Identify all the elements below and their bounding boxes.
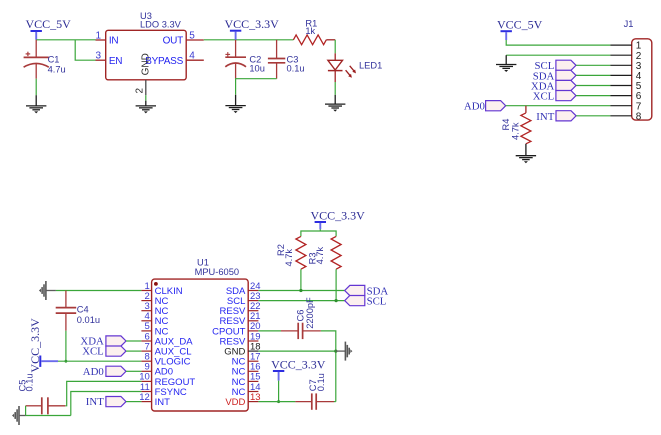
U1 pin 12 INT — [139, 392, 170, 408]
power flag VCC_3.3V rotated left — [28, 318, 58, 373]
U1 pin 5 NC — [141, 321, 168, 337]
U1 pin 17 NC — [232, 352, 261, 368]
U1 pin 18 GND — [224, 341, 260, 357]
resistor R2 4.7k — [276, 236, 306, 269]
net label XDA — [531, 80, 576, 92]
power flag VCC_5V at J1 — [497, 18, 543, 40]
svg-text:4: 4 — [189, 51, 195, 62]
svg-text:0.01u: 0.01u — [77, 315, 100, 325]
wire XCL to J1 pin 6 — [576, 95, 610, 97]
net label SDA — [533, 70, 576, 82]
U1 pin 15 NC — [232, 372, 261, 388]
net label INT — [536, 111, 576, 123]
wire SDA to J1 pin 4 — [576, 74, 610, 76]
wire R1 to LED — [334, 40, 336, 54]
resistor R1 1k — [293, 18, 335, 44]
wire EN branch — [75, 40, 95, 60]
svg-text:0.1u: 0.1u — [25, 373, 35, 391]
svg-text:4.7u: 4.7u — [48, 64, 66, 74]
svg-text:8: 8 — [636, 111, 642, 122]
J1 pin 3 — [610, 61, 641, 72]
U1 pin 13 VDD — [225, 392, 260, 408]
svg-text:10u: 10u — [249, 63, 265, 73]
svg-text:VCC_3.3V: VCC_3.3V — [311, 209, 366, 223]
wire R3 bottom to SCL net — [335, 269, 337, 300]
ground arrow bottom left — [12, 406, 19, 425]
J1 pin 8 — [610, 111, 641, 122]
capacitor C6 2200pF — [281, 297, 321, 339]
svg-text:C4: C4 — [77, 305, 89, 315]
svg-text:LED1: LED1 — [359, 60, 382, 70]
wire AD0 to pin 9 — [126, 370, 141, 372]
svg-text:4.7k: 4.7k — [284, 249, 294, 267]
svg-text:2: 2 — [135, 88, 146, 94]
wire INT to J1 pin 8 — [576, 115, 610, 117]
U1 pin 6 AUX_DA — [141, 331, 193, 347]
svg-text:4.7k: 4.7k — [510, 122, 520, 140]
ground under C1 — [35, 95, 37, 106]
U1 pin 7 AUX_CL — [141, 341, 191, 357]
svg-text:INT: INT — [536, 111, 554, 123]
svg-text:XCL: XCL — [82, 346, 104, 358]
svg-text:C6: C6 — [295, 310, 305, 322]
U1 pin 2 NC — [141, 291, 168, 307]
svg-text:4.7k: 4.7k — [315, 246, 325, 264]
wire VCC_3.3V to VLOGIC — [58, 360, 141, 362]
IC U3 LDO 3.3V — [106, 11, 187, 80]
wire SDA net — [258, 290, 344, 292]
power flag VCC_5V — [26, 17, 72, 40]
U1 pin 22 RESV — [220, 301, 261, 317]
U1 pin 20 CPOUT — [212, 321, 260, 337]
net label SCL — [534, 60, 576, 72]
resistor R4 4.7k — [501, 106, 531, 144]
net label XDA — [80, 336, 126, 348]
resistor R3 4.7k — [308, 236, 341, 269]
U1 pin 14 NC — [232, 382, 261, 398]
U3 pin 2 GND — [135, 53, 152, 95]
U1 pin 4 NC — [141, 311, 168, 327]
IC U1 MPU-6050 — [152, 257, 249, 411]
svg-text:3: 3 — [95, 51, 101, 62]
U3 pin 1 IN — [95, 30, 118, 46]
junction — [334, 350, 337, 353]
wire J1 pin 2 to ground — [506, 54, 610, 56]
U1 pin 19 RESV — [220, 331, 261, 347]
wire XDA to J1 pin 5 — [576, 85, 610, 87]
svg-text:XCL: XCL — [533, 91, 555, 103]
svg-text:OUT: OUT — [163, 36, 184, 47]
U1 pin 21 RESV — [220, 311, 261, 327]
wire LED to ground — [334, 82, 336, 95]
net label AD0 — [83, 366, 126, 378]
wire gnd to CLKIN — [56, 290, 141, 292]
J1 pin 5 — [610, 81, 641, 92]
svg-text:VDD: VDD — [225, 397, 245, 408]
U3 pin 5 OUT — [163, 30, 204, 46]
wire INT to pin 12 — [126, 401, 141, 403]
U1 pin 16 NC — [232, 362, 261, 378]
U1 pin 3 NC — [141, 301, 168, 317]
power flag VCC_3.3V at VDD — [271, 358, 326, 381]
ground under R4 — [525, 144, 527, 156]
U1 pin 1 CLKIN — [141, 281, 182, 297]
svg-text:2200pF: 2200pF — [305, 297, 315, 329]
svg-text:0.1u: 0.1u — [287, 63, 305, 73]
wire VCC_5V to J1 pin 1 — [506, 40, 610, 45]
connector J1 — [624, 19, 652, 120]
net label XCL — [82, 346, 126, 358]
ground arrow left of CLKIN — [39, 281, 46, 300]
capacitor C7 0.1u — [295, 373, 334, 410]
svg-text:SCL: SCL — [367, 296, 387, 308]
wire XCL to AUX_CL — [126, 350, 141, 352]
svg-text:INT: INT — [86, 396, 104, 408]
wire C1 to ground — [35, 79, 37, 96]
wire bottom gnd net — [26, 415, 71, 417]
net label SDA — [345, 285, 389, 297]
wire SCL to J1 pin 3 — [576, 64, 610, 66]
wire C6 to gnd vertical — [321, 331, 336, 402]
svg-text:J1: J1 — [624, 19, 634, 29]
svg-text:INT: INT — [155, 397, 171, 408]
J1 pin 1 — [610, 41, 641, 52]
svg-text:VCC_5V: VCC_5V — [497, 18, 543, 32]
svg-text:GND: GND — [140, 53, 151, 75]
svg-text:U1: U1 — [197, 257, 209, 267]
power flag VCC_3.3V above R2 R3 — [311, 209, 366, 230]
svg-text:1k: 1k — [305, 26, 315, 36]
capacitor C5 0.1u — [17, 373, 65, 414]
wire U3 gnd — [145, 95, 147, 101]
net label INT — [86, 396, 126, 408]
wire C4 to VLOGIC net — [65, 331, 67, 362]
svg-text:1: 1 — [95, 30, 101, 41]
ground at J1 pin 2 — [505, 55, 507, 64]
svg-text:VCC_3.3V: VCC_3.3V — [271, 358, 326, 372]
wire FSYNC to gnd net — [71, 392, 142, 416]
wire C7 to gnd vertical — [334, 401, 336, 403]
junction — [299, 289, 302, 292]
wire C2 C3 bottom — [236, 79, 277, 95]
J1 pin 4 — [610, 71, 641, 82]
svg-text:IN: IN — [109, 36, 119, 47]
U1 pin 11 FSYNC — [140, 382, 187, 398]
wire R2 bottom to SDA net — [300, 269, 302, 290]
ground under C2 — [235, 95, 237, 106]
wire GND pin to arrow — [258, 350, 335, 352]
J1 pin 7 — [610, 101, 641, 112]
svg-text:0.1u: 0.1u — [316, 373, 326, 391]
wire VCC to R2 R3 tops — [301, 229, 336, 236]
U1 pin 1 marker dot — [154, 282, 158, 286]
capacitor C3 0.1u — [268, 40, 305, 79]
ground under U3 — [145, 101, 147, 106]
U1 pin 10 REGOUT — [139, 372, 195, 388]
wire VCC_5V to U3 IN — [36, 39, 95, 41]
wire SCL net — [258, 300, 344, 302]
ground under LED1 — [334, 95, 336, 104]
svg-text:EN: EN — [109, 56, 122, 67]
wire VCC to VDD net — [278, 381, 280, 402]
wire U3 OUT to R1 — [204, 39, 294, 41]
wire VDD net — [258, 401, 295, 403]
LED LED1 — [328, 53, 382, 82]
svg-text:C1: C1 — [48, 55, 60, 65]
ground arrow right — [336, 350, 346, 352]
U3 pin 4 BYPASS — [145, 51, 204, 67]
svg-text:AD0: AD0 — [464, 101, 485, 113]
U3 pin 3 EN — [95, 51, 122, 67]
junction — [277, 400, 280, 403]
svg-text:5: 5 — [189, 30, 195, 41]
U1 pin 23 SCL — [227, 291, 261, 307]
svg-text:VCC_3.3V: VCC_3.3V — [225, 17, 280, 31]
U1 pin 24 SDA — [226, 281, 261, 297]
svg-text:LDO 3.3V: LDO 3.3V — [140, 19, 182, 29]
capacitor C1 4.7u — [24, 40, 66, 79]
wire C5 to gnd net — [25, 406, 27, 416]
svg-text:VCC_5V: VCC_5V — [26, 17, 72, 31]
U1 pin 8 VLOGIC — [141, 352, 190, 368]
wire REGOUT to C5 — [65, 381, 141, 405]
J1 pin 2 — [610, 51, 641, 62]
wire CPOUT to C6 — [258, 330, 281, 332]
J1 pin 6 — [610, 91, 641, 102]
svg-text:AD0: AD0 — [83, 366, 104, 378]
net label XCL — [533, 91, 576, 103]
svg-text:MPU-6050: MPU-6050 — [195, 267, 239, 277]
net label SCL — [345, 296, 387, 308]
capacitor C2 10u — [225, 40, 265, 79]
junction — [335, 299, 338, 302]
U1 pin 9 AD0 — [141, 362, 173, 378]
wire AD0 to J1 pin 7 — [506, 105, 611, 107]
net label AD0 — [464, 101, 506, 113]
wire XDA to AUX_DA — [126, 340, 141, 342]
capacitor C4 0.01u — [56, 291, 100, 331]
power flag VCC_3.3V — [225, 17, 280, 40]
